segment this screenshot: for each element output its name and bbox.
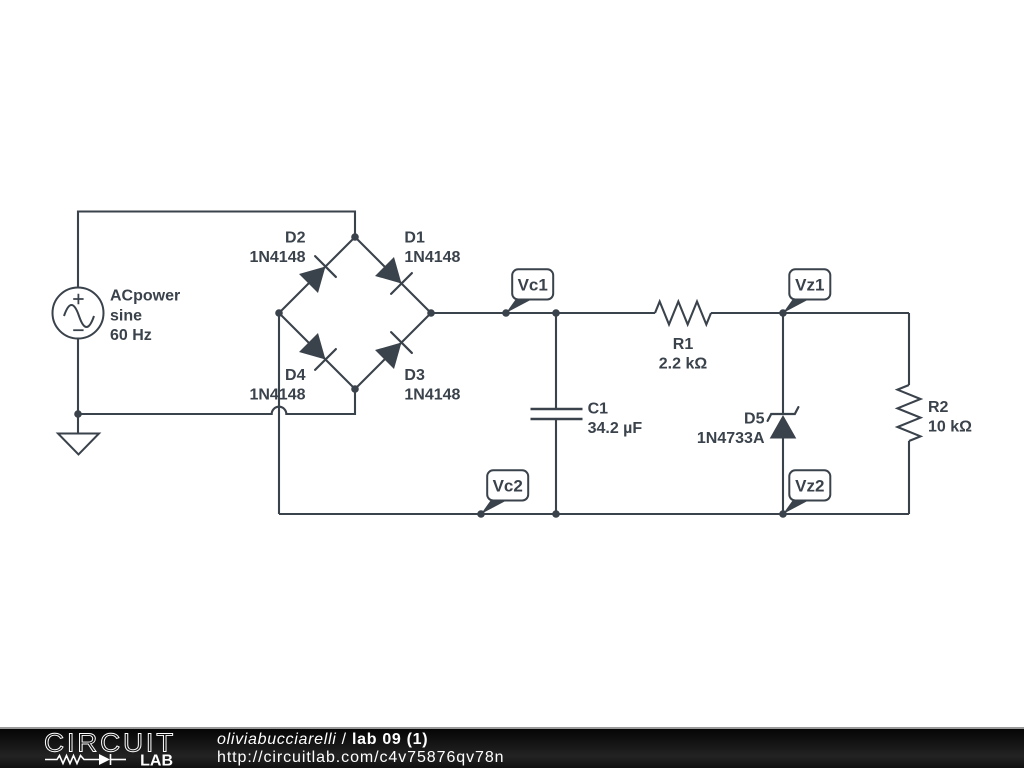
svg-text:D4: D4	[285, 367, 306, 384]
svg-text:sine: sine	[110, 307, 142, 324]
svg-text:1N4148: 1N4148	[249, 387, 305, 404]
svg-text:Vc1: Vc1	[518, 276, 548, 295]
svg-text:1N4148: 1N4148	[249, 249, 305, 266]
svg-text:ACpower: ACpower	[110, 288, 180, 305]
svg-text:R2: R2	[928, 399, 949, 416]
svg-text:10 kΩ: 10 kΩ	[928, 419, 972, 436]
svg-text:Vc2: Vc2	[493, 477, 523, 496]
svg-text:1N4148: 1N4148	[404, 387, 460, 404]
svg-text:Vz2: Vz2	[795, 477, 824, 496]
svg-text:1N4733A: 1N4733A	[697, 430, 765, 447]
svg-text:C1: C1	[588, 401, 609, 418]
svg-text:1N4148: 1N4148	[404, 249, 460, 266]
svg-text:60 Hz: 60 Hz	[110, 327, 152, 344]
svg-text:R1: R1	[673, 336, 694, 353]
svg-text:D2: D2	[285, 229, 306, 246]
svg-text:D5: D5	[744, 411, 765, 428]
svg-text:D1: D1	[404, 229, 425, 246]
svg-text:2.2 kΩ: 2.2 kΩ	[659, 356, 708, 373]
svg-text:Vz1: Vz1	[795, 276, 824, 295]
svg-text:LAB: LAB	[140, 753, 173, 768]
svg-text:34.2 µF: 34.2 µF	[588, 420, 643, 437]
svg-text:D3: D3	[404, 367, 425, 384]
